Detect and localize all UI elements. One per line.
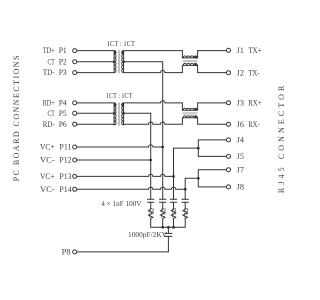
wire C5 to P8 bbox=[77, 251, 168, 253]
T2 secondary CT junction dot bbox=[122, 112, 125, 115]
terminal P3 bbox=[73, 71, 77, 75]
capacitor C3 plates bbox=[170, 199, 176, 202]
svg-text:CT: CT bbox=[48, 109, 55, 118]
choke L2 bottom winding phase dot bbox=[195, 116, 198, 119]
svg-text:1000pF/2KV: 1000pF/2KV bbox=[128, 231, 167, 239]
svg-text:RD+: RD+ bbox=[43, 99, 55, 108]
terminal P6 bbox=[73, 122, 77, 126]
ground rail bbox=[151, 226, 186, 228]
svg-text:TD-: TD- bbox=[43, 68, 55, 77]
capacitor C1 plates bbox=[148, 199, 154, 202]
choke L2 top winding bbox=[182, 103, 226, 110]
junction dot P14/D bbox=[184, 188, 187, 191]
wire T2 secondary CT to node B vertical bbox=[124, 113, 151, 199]
wire J4/J5 to node C vertical bbox=[174, 148, 199, 199]
svg-text:VC-: VC- bbox=[40, 185, 55, 194]
terminal J5 bbox=[227, 154, 231, 158]
svg-text:1CT : 1CT: 1CT : 1CT bbox=[106, 92, 133, 100]
terminal P14 bbox=[73, 187, 77, 191]
wire P11 to node A with hop over B bbox=[77, 145, 163, 147]
J4/J5 bracket bbox=[198, 140, 226, 157]
svg-text:J3: J3 bbox=[237, 98, 244, 107]
svg-text:4 × 1nF 100V: 4 × 1nF 100V bbox=[101, 200, 141, 208]
choke L1 core bbox=[183, 61, 197, 62]
svg-text:P14: P14 bbox=[59, 185, 71, 194]
wire P4 to T2 primary top bbox=[77, 102, 114, 104]
resistor R1 75ohm bbox=[149, 210, 153, 228]
capacitor C2 plates bbox=[160, 199, 166, 202]
transformer T1 core bbox=[118, 50, 119, 73]
svg-text:J8: J8 bbox=[237, 183, 244, 192]
choke L1 bottom winding bbox=[182, 65, 226, 72]
terminal P8 bbox=[73, 250, 77, 254]
svg-text:P8: P8 bbox=[62, 248, 71, 257]
junction dot P13/C bbox=[172, 175, 175, 178]
svg-text:VC-: VC- bbox=[40, 156, 55, 165]
terminal P1 bbox=[73, 49, 77, 53]
terminal J3 bbox=[227, 101, 231, 105]
rail junction dot at R3 bbox=[172, 226, 175, 229]
svg-text:P5: P5 bbox=[59, 109, 67, 118]
svg-text:PC BOARD CONNECTIONS: PC BOARD CONNECTIONS bbox=[12, 54, 21, 181]
junction dot J7/J8 bbox=[197, 177, 200, 180]
terminal J2 bbox=[227, 71, 231, 75]
svg-text:J6: J6 bbox=[237, 120, 244, 129]
svg-text:P4: P4 bbox=[59, 99, 67, 108]
svg-text:P11: P11 bbox=[59, 143, 71, 152]
wire P6 to T2 primary bottom bbox=[77, 123, 114, 125]
terminal J1 bbox=[227, 48, 231, 52]
svg-text:75Ω: 75Ω bbox=[184, 207, 190, 218]
svg-text:P13: P13 bbox=[59, 172, 71, 181]
capacitor C2 lead bbox=[162, 202, 164, 209]
terminal P5 bbox=[73, 111, 77, 115]
choke L2 bottom winding bbox=[182, 118, 226, 125]
resistor R2 75ohm bbox=[161, 210, 165, 228]
svg-text:CT: CT bbox=[48, 57, 55, 66]
junction dot P12/B bbox=[149, 159, 152, 162]
svg-text:RD-: RD- bbox=[43, 120, 55, 129]
svg-text:P1: P1 bbox=[59, 46, 67, 55]
wire P3 to T1 primary bottom bbox=[77, 72, 114, 74]
svg-text:J7: J7 bbox=[237, 165, 244, 174]
svg-text:VC+: VC+ bbox=[40, 143, 55, 152]
choke L2 top winding phase dot bbox=[195, 108, 198, 111]
junction dot J4/J5 bbox=[197, 147, 200, 150]
svg-text:1CT : 1CT: 1CT : 1CT bbox=[107, 40, 136, 48]
junction dot P11/A bbox=[161, 146, 164, 149]
choke L2 core bbox=[183, 113, 197, 114]
terminal P4 bbox=[73, 101, 77, 105]
resistor R3 75ohm bbox=[171, 210, 175, 228]
svg-text:P6: P6 bbox=[59, 120, 67, 129]
transformer T2 secondary winding bbox=[122, 103, 124, 125]
svg-text:P2: P2 bbox=[59, 57, 67, 66]
transformer T1 secondary winding bbox=[122, 51, 124, 73]
transformer T2 primary winding bbox=[114, 103, 116, 125]
svg-text:TX-: TX- bbox=[248, 68, 260, 77]
svg-text:J5: J5 bbox=[237, 152, 244, 161]
wire T2 secondary top to choke L2 with hop bbox=[124, 101, 183, 103]
wire P5 to T2 primary CT bbox=[77, 112, 114, 114]
terminal J4 bbox=[227, 138, 231, 142]
wire P1 to T1 primary top bbox=[77, 50, 114, 52]
svg-text:RJ45 CONNECTOR: RJ45 CONNECTOR bbox=[277, 82, 286, 193]
svg-text:J4: J4 bbox=[237, 136, 244, 145]
capacitor C3 lead bbox=[173, 202, 175, 209]
resistor R4 75ohm bbox=[183, 210, 187, 228]
terminal P13 bbox=[73, 174, 77, 178]
svg-text:RX+: RX+ bbox=[248, 98, 262, 107]
capacitor C4 lead bbox=[184, 202, 186, 209]
wire T1 secondary bottom to choke L1 with hop over node A line bbox=[124, 70, 183, 72]
wire P2 to T1 primary CT bbox=[77, 61, 114, 63]
wire T2 secondary bottom to choke L2 with two hops bbox=[124, 122, 183, 124]
svg-text:TX+: TX+ bbox=[248, 46, 262, 55]
capacitor C4 plates bbox=[182, 199, 188, 202]
svg-text:75Ω: 75Ω bbox=[172, 207, 178, 218]
choke L1 top winding phase dot bbox=[195, 56, 198, 59]
svg-text:J2: J2 bbox=[237, 68, 244, 77]
svg-text:RX-: RX- bbox=[248, 120, 260, 129]
capacitor C5 1000pF/2KV bbox=[167, 227, 169, 233]
wire P12 to node B bbox=[77, 159, 151, 161]
T2 phase dot primary bbox=[114, 103, 117, 106]
rail junction dot at C5 tap bbox=[167, 226, 170, 229]
terminal P11 bbox=[73, 145, 77, 149]
terminal J7 bbox=[227, 168, 231, 172]
terminal J8 bbox=[227, 185, 231, 189]
T1 phase dot primary bbox=[114, 51, 117, 54]
wire T1 secondary top to choke L1 bbox=[124, 50, 183, 52]
transformer T2 core bbox=[118, 103, 119, 126]
choke L1 bottom winding phase dot bbox=[195, 63, 198, 66]
wire P14 to node D with hops over B A C bbox=[77, 187, 185, 189]
terminal J6 bbox=[227, 122, 231, 126]
T2 phase dot secondary bbox=[122, 103, 125, 106]
svg-text:P12: P12 bbox=[59, 156, 71, 165]
svg-text:J1: J1 bbox=[237, 46, 244, 55]
wire J7/J8 to node D vertical bbox=[185, 178, 198, 199]
T1 secondary CT junction dot bbox=[122, 60, 125, 63]
choke L1 top winding bbox=[182, 51, 226, 58]
svg-text:P3: P3 bbox=[59, 68, 67, 77]
capacitor C1 lead bbox=[150, 202, 152, 209]
svg-text:VC+: VC+ bbox=[40, 172, 55, 181]
T2 primary CT junction dot bbox=[113, 112, 116, 115]
transformer T1 primary winding bbox=[114, 51, 116, 73]
terminal P2 bbox=[73, 60, 77, 64]
T1 primary CT junction dot bbox=[113, 60, 116, 63]
rail junction dot at R2 bbox=[161, 226, 164, 229]
svg-text:75Ω: 75Ω bbox=[161, 207, 167, 218]
svg-text:75Ω: 75Ω bbox=[149, 207, 155, 218]
svg-text:TD+: TD+ bbox=[43, 46, 55, 55]
T1 phase dot secondary bbox=[122, 51, 125, 54]
wire P13 to node C with hops over B and A bbox=[77, 174, 174, 176]
terminal P12 bbox=[73, 158, 77, 162]
wire T1 secondary CT to node A vertical bbox=[124, 62, 163, 200]
J7/J8 bracket bbox=[198, 170, 226, 187]
